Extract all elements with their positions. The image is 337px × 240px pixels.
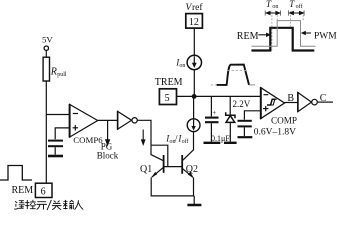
svg-text:PWM: PWM bbox=[314, 32, 337, 42]
pin box 5 bbox=[159, 89, 176, 105]
svg-text:Q1: Q1 bbox=[140, 164, 152, 175]
svg-text:Q2: Q2 bbox=[186, 164, 198, 175]
resistor Rpull bbox=[43, 57, 67, 81]
wire TREM rail bbox=[177, 95, 261, 97]
wire emitter rail bbox=[151, 195, 195, 197]
Toff dimension arrows bbox=[288, 11, 304, 15]
wire node C bbox=[317, 101, 333, 103]
wire inverter output bbox=[137, 120, 151, 145]
svg-text:5V: 5V bbox=[42, 35, 53, 45]
ground under capacitor bbox=[48, 155, 63, 158]
wire resistor to REM box 6 bbox=[45, 81, 47, 183]
wire COMP + input with capacitor bbox=[244, 111, 260, 120]
svg-text:REM: REM bbox=[12, 185, 34, 196]
ground at emitters bbox=[187, 196, 201, 205]
transistor Q1 bbox=[151, 155, 163, 178]
node C label bbox=[320, 93, 327, 104]
timing diagram REM thick waveform bbox=[251, 28, 314, 51]
wire COMP6 output bbox=[98, 119, 118, 121]
svg-text:0.1μF: 0.1μF bbox=[211, 134, 230, 143]
wire Q2 collector up bbox=[193, 132, 195, 151]
capacitor at COMP + input bbox=[238, 121, 252, 136]
wire to Q1 collector and bases bbox=[151, 145, 168, 166]
current source Ion/Ioff bbox=[187, 119, 200, 132]
pin box 6 bbox=[35, 183, 52, 197]
wire current source to junction bbox=[193, 70, 195, 97]
label PWM with arrow bbox=[301, 31, 337, 42]
label 0.1uF bbox=[211, 134, 230, 143]
svg-text:off: off bbox=[296, 3, 303, 10]
timing diagram PWM thin waveform bbox=[252, 21, 316, 47]
inverter output stage bbox=[298, 92, 317, 112]
wire current source to TREM rail bbox=[193, 96, 195, 119]
Ton dimension arrows bbox=[265, 11, 281, 15]
node 5V label bbox=[42, 35, 53, 45]
label Q1 bbox=[140, 164, 152, 175]
label PG Block bbox=[97, 142, 119, 161]
label 0.6V-1.8V bbox=[254, 127, 296, 137]
label 2.2V bbox=[233, 99, 251, 109]
ground bar under 0.1uF bbox=[204, 142, 221, 144]
dashed reference lines bbox=[265, 10, 304, 50]
label TREM bbox=[155, 77, 183, 88]
wire COMP to inverter bbox=[285, 102, 298, 104]
svg-text:pull: pull bbox=[57, 72, 67, 78]
wire Q2 emitter down bbox=[193, 178, 195, 196]
current source Ion bbox=[187, 55, 201, 69]
pin box 12 bbox=[186, 14, 203, 29]
svg-text:C: C bbox=[320, 93, 327, 104]
TREM waveform sketch bbox=[211, 65, 255, 85]
capacitor 0.1uF bbox=[205, 96, 219, 141]
wire base rail Q1-Q2 bbox=[164, 166, 183, 168]
svg-text:off: off bbox=[182, 138, 189, 145]
capacitor at COMP6 + input bbox=[48, 141, 63, 155]
svg-text:0.6V–1.8V: 0.6V–1.8V bbox=[254, 127, 296, 137]
svg-text:COMP6: COMP6 bbox=[73, 135, 103, 145]
wire 5V to resistor bbox=[45, 50, 47, 57]
transistor Q2 bbox=[182, 150, 194, 178]
svg-text:5: 5 bbox=[165, 93, 170, 104]
REM label bbox=[12, 185, 34, 196]
ground under COMP + capacitor bbox=[238, 136, 253, 138]
svg-text:ref: ref bbox=[192, 2, 203, 13]
svg-text:Block: Block bbox=[97, 151, 119, 161]
svg-text:6: 6 bbox=[41, 187, 46, 198]
comparator COMP bbox=[261, 87, 285, 119]
svg-text:on: on bbox=[179, 63, 185, 69]
label Ton bbox=[266, 0, 278, 10]
svg-text:2.2V: 2.2V bbox=[233, 99, 251, 109]
svg-text:on: on bbox=[272, 4, 278, 10]
wire node to COMP6 inverting input bbox=[46, 114, 69, 116]
label Vref bbox=[186, 2, 204, 13]
svg-text:TREM: TREM bbox=[155, 77, 183, 88]
wire Q1 emitter down bbox=[150, 177, 152, 196]
junction node TREM bbox=[192, 94, 197, 99]
label remote on/off input (CJK) bbox=[15, 200, 83, 210]
label Ion bbox=[175, 57, 185, 69]
5V terminal circle bbox=[44, 46, 48, 50]
REM input pulse waveform bbox=[0, 166, 32, 181]
svg-text:R: R bbox=[50, 67, 57, 78]
inverter after COMP6 bbox=[118, 111, 138, 130]
wire Vref to current source bbox=[193, 28, 195, 55]
op-amp COMP6 bbox=[70, 104, 104, 145]
svg-text:COMP: COMP bbox=[271, 116, 297, 126]
ground bar under zener bbox=[224, 142, 237, 144]
wire COMP6 non-inverting input bbox=[55, 128, 69, 139]
label COMP bbox=[271, 116, 297, 126]
label Toff bbox=[289, 0, 302, 10]
node B bbox=[287, 93, 294, 104]
svg-text:REM: REM bbox=[237, 31, 259, 42]
svg-text:12: 12 bbox=[189, 17, 199, 28]
current direction arrow bbox=[141, 130, 146, 147]
arrow to PG Block bbox=[105, 120, 110, 146]
label Ion/Ioff bbox=[165, 133, 188, 145]
zener diode 2.2V bbox=[226, 96, 235, 141]
label REM with arrow bbox=[237, 31, 271, 42]
svg-text:+: + bbox=[212, 109, 216, 117]
label Q2 bbox=[186, 164, 198, 175]
